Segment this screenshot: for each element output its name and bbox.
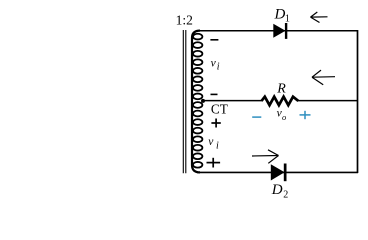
transformer T1 core line right — [185, 30, 187, 173]
svg-text:o: o — [282, 112, 286, 122]
wire bottom (secondary bottom terminal to D2 to right rail) — [197, 171, 358, 173]
blue plus sign v_o right — [300, 111, 311, 119]
svg-text:i: i — [216, 141, 219, 152]
svg-text:R: R — [276, 82, 286, 97]
resistor R — [262, 97, 299, 106]
svg-text:v: v — [211, 57, 217, 69]
svg-text:D: D — [271, 182, 283, 198]
transformer T1 secondary winding spine — [192, 31, 200, 173]
label D1 — [274, 7, 290, 25]
label v_i top winding — [211, 57, 220, 72]
CT junction dot — [201, 99, 205, 103]
svg-text:1:2: 1:2 — [176, 12, 193, 27]
wire right rail — [357, 30, 359, 173]
wire middle right (resistor to right rail) — [298, 100, 358, 102]
transformer T1 secondary winding loops — [193, 34, 202, 168]
plus sign bottom winding lower terminal — [207, 158, 221, 168]
minus sign top winding upper terminal — [210, 39, 218, 41]
label D2 — [271, 182, 289, 200]
svg-text:D: D — [274, 7, 286, 23]
svg-text:2: 2 — [283, 189, 288, 200]
label v_o — [277, 108, 287, 122]
blue minus sign v_o left — [252, 116, 261, 118]
plus sign bottom winding upper terminal — [211, 119, 220, 128]
wire top (secondary top terminal to D1 to right rail) — [197, 30, 358, 32]
arrow current direction middle (pointing left) — [312, 70, 335, 85]
wire middle left (CT to resistor) — [203, 100, 262, 102]
arrow current direction bottom (pointing right) — [252, 150, 279, 164]
arrow current direction top (pointing left) — [311, 12, 328, 23]
minus sign top winding lower terminal — [211, 93, 218, 95]
diode D1 — [273, 23, 287, 39]
diode D2 — [271, 164, 287, 182]
svg-text:1: 1 — [285, 13, 290, 24]
label v_i bottom winding — [208, 136, 219, 152]
svg-text:i: i — [217, 61, 220, 72]
svg-text:CT: CT — [211, 102, 228, 117]
svg-text:v: v — [208, 136, 214, 148]
transformer T1 core line left — [182, 30, 184, 173]
